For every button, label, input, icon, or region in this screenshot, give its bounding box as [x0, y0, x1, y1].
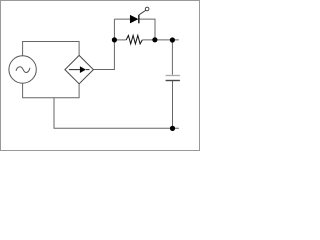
SCR D2 triangle: [130, 15, 138, 23]
wire: AC source top to bridge top: [23, 42, 80, 57]
bridge rectifier diamond: [65, 55, 94, 83]
wire: bottom return rail: [54, 98, 179, 129]
bridge arrow head: [80, 66, 86, 73]
SCR gate lead: [139, 10, 146, 15]
wire: resistor to output stub: [142, 39, 178, 41]
junction dot node C (cap top): [170, 37, 175, 42]
SCR cathode bar: [138, 15, 140, 23]
wire: bridge right output up to node A: [93, 19, 114, 69]
wire: capacitor bottom lead: [172, 81, 174, 129]
capacitor C1 bottom plate: [166, 80, 180, 82]
border frame: [1, 1, 200, 151]
junction dot node D (cap bottom): [170, 126, 175, 131]
capacitor C1 top plate: [166, 75, 180, 77]
junction dot node B: [152, 37, 157, 42]
bridge arrow line: [69, 69, 90, 71]
wire: SCR anode wire: [114, 18, 130, 20]
resistor R1 zigzag: [126, 35, 142, 44]
wire: AC source bottom to bridge bottom: [23, 83, 80, 98]
junction dot node A: [112, 37, 117, 42]
wire: node A to resistor: [114, 39, 126, 41]
AC sine wave: [16, 67, 30, 73]
SCR gate terminal circle: [145, 7, 149, 11]
wire: capacitor top lead: [171, 40, 173, 75]
AC source V1: [9, 56, 36, 83]
wire: SCR cathode to right drop: [139, 19, 155, 40]
